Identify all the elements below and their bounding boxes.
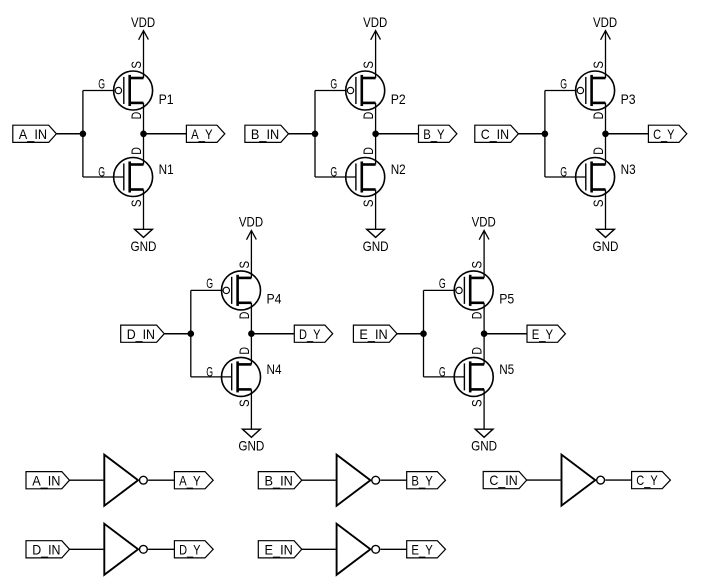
svg-text:N4: N4 [267, 361, 282, 377]
pin label S of N4 [236, 399, 252, 407]
svg-text:S: S [590, 61, 606, 69]
svg-text:C_Y: C_Y [653, 126, 675, 142]
global label C_Y (gate row) [632, 472, 671, 489]
wire input B_IN to gate bus [289, 133, 316, 135]
svg-text:GND: GND [238, 438, 264, 454]
svg-text:P2: P2 [391, 91, 406, 107]
inverter gate C (triangle) [562, 455, 596, 506]
wire VDD to P3 source [605, 31, 607, 78]
global label C_IN [475, 125, 519, 142]
svg-text:G: G [439, 275, 446, 291]
global label A_Y (gate row) [174, 472, 213, 489]
svg-text:E_Y: E_Y [411, 541, 433, 557]
svg-text:S: S [469, 399, 485, 407]
svg-text:G: G [330, 75, 337, 91]
wire VDD to P1 source [143, 31, 145, 78]
global label E_IN (gate row) [258, 541, 302, 558]
svg-text:G: G [206, 275, 213, 291]
svg-text:E_IN: E_IN [265, 541, 293, 557]
svg-text:S: S [236, 399, 252, 407]
pin label S of N5 [469, 399, 485, 407]
ground GND (inverter B) [363, 229, 389, 254]
svg-text:A_Y: A_Y [179, 472, 201, 488]
global label D_IN [121, 325, 165, 342]
wire inverter output to B_Y [380, 479, 406, 481]
svg-text:P4: P4 [267, 291, 282, 307]
svg-text:S: S [360, 61, 376, 69]
power VDD (inverter D) [239, 214, 263, 240]
svg-text:D_IN: D_IN [127, 326, 155, 342]
inverter gate E output bubble [372, 545, 380, 553]
ground GND (inverter C) [593, 229, 619, 254]
global label A_Y [186, 125, 224, 142]
svg-text:D: D [128, 147, 144, 155]
global label C_IN (gate row) [483, 472, 527, 489]
svg-text:P5: P5 [499, 291, 514, 307]
svg-text:GND: GND [131, 238, 157, 254]
nmos transistor N3 [576, 158, 615, 197]
svg-text:E_IN: E_IN [359, 326, 387, 342]
wire gate bus to N3 gate [545, 176, 586, 178]
svg-text:D: D [590, 112, 606, 120]
pin label D of P1 [128, 112, 144, 120]
inverter gate A output bubble [140, 476, 148, 484]
svg-text:D: D [128, 112, 144, 120]
pin label S of P5 [469, 261, 485, 269]
svg-text:GND: GND [363, 238, 389, 254]
wire gate bus to P2 gate [315, 90, 347, 92]
pin label S of P2 [360, 61, 376, 69]
svg-text:VDD: VDD [131, 14, 155, 30]
svg-text:S: S [590, 200, 606, 208]
wire inverter output to D_Y [148, 548, 174, 550]
wire D_IN to inverter input [70, 548, 104, 550]
inverter gate C output bubble [597, 476, 605, 484]
svg-text:S: S [469, 261, 485, 269]
inverter gate E (triangle) [337, 524, 371, 575]
junction on output (net C_Y) [602, 131, 609, 138]
svg-text:A_IN: A_IN [32, 472, 60, 488]
svg-text:B_IN: B_IN [251, 126, 279, 142]
wire gate bus (inverter E) [423, 290, 425, 377]
svg-text:P1: P1 [159, 91, 174, 107]
wire gate bus to N4 gate [191, 376, 232, 378]
svg-text:N3: N3 [621, 161, 636, 177]
junction on output (net A_Y) [140, 131, 147, 138]
inverter gate B output bubble [372, 476, 380, 484]
svg-text:P3: P3 [621, 91, 636, 107]
junction on output (net B_Y) [372, 131, 379, 138]
ground GND (inverter A) [131, 229, 157, 254]
wire A_IN to inverter input [70, 479, 104, 481]
global label B_Y [419, 125, 457, 142]
svg-text:C_IN: C_IN [489, 472, 517, 488]
wire P4 drain to N4 drain (output) [250, 303, 252, 365]
svg-text:E_Y: E_Y [532, 326, 554, 342]
pmos transistor P5 [454, 271, 493, 310]
wire E_IN to inverter input [302, 548, 336, 550]
wire gate bus (inverter B) [314, 91, 316, 178]
svg-text:B_Y: B_Y [423, 126, 445, 142]
svg-text:D: D [590, 147, 606, 155]
wire output to C_Y label [606, 133, 649, 135]
global label B_IN (gate row) [258, 472, 302, 489]
svg-text:S: S [360, 200, 376, 208]
pin label S of N3 [590, 200, 606, 208]
wire gate bus to N5 gate [424, 376, 465, 378]
pin label S of N2 [360, 200, 376, 208]
nmos transistor N1 [114, 158, 153, 197]
inverter gate A (triangle) [104, 455, 138, 506]
svg-text:GND: GND [471, 438, 497, 454]
svg-text:A_IN: A_IN [19, 126, 47, 142]
global label E_Y [527, 325, 565, 342]
svg-text:S: S [128, 61, 144, 69]
wire gate bus (inverter D) [190, 290, 192, 377]
pin label D of N3 [590, 147, 606, 155]
svg-text:D_Y: D_Y [299, 326, 321, 342]
power VDD (inverter C) [593, 14, 617, 40]
pin label D of N2 [360, 147, 376, 155]
wire P2 drain to N2 drain (output) [375, 103, 377, 165]
wire P1 drain to N1 drain (output) [143, 103, 145, 165]
wire output to D_Y label [251, 333, 294, 335]
wire N1 source to GND [143, 190, 145, 230]
wire N4 source to GND [250, 389, 252, 429]
svg-text:VDD: VDD [363, 14, 387, 30]
power VDD (inverter A) [131, 14, 155, 40]
inverter gate D (triangle) [104, 524, 138, 575]
pmos transistor P3 [576, 71, 615, 110]
wire N2 source to GND [375, 190, 377, 230]
svg-text:B_Y: B_Y [411, 472, 433, 488]
junction on gate bus (net A_IN) [80, 131, 87, 138]
wire VDD to P5 source [483, 231, 485, 278]
svg-text:D: D [360, 112, 376, 120]
svg-text:N5: N5 [499, 361, 514, 377]
wire output to E_Y label [484, 333, 527, 335]
global label D_IN (gate row) [26, 541, 70, 558]
wire input D_IN to gate bus [164, 333, 191, 335]
svg-text:B_IN: B_IN [265, 472, 293, 488]
pin label D of N5 [469, 347, 485, 355]
junction on gate bus (net B_IN) [312, 131, 319, 138]
svg-text:C_Y: C_Y [636, 472, 658, 488]
pin label D of P5 [469, 312, 485, 320]
wire input E_IN to gate bus [397, 333, 424, 335]
global label A_IN [13, 125, 57, 142]
wire output to B_Y label [376, 133, 419, 135]
global label E_Y (gate row) [407, 541, 446, 558]
wire C_IN to inverter input [527, 479, 561, 481]
pin label S of P1 [128, 61, 144, 69]
wire gate bus (inverter C) [544, 91, 546, 178]
wire VDD to P4 source [250, 231, 252, 278]
svg-text:S: S [128, 200, 144, 208]
global label A_IN (gate row) [26, 472, 70, 489]
inverter gate B (triangle) [337, 455, 371, 506]
svg-text:A_Y: A_Y [191, 126, 213, 142]
svg-text:D_IN: D_IN [32, 541, 60, 557]
junction on gate bus (net C_IN) [542, 131, 549, 138]
svg-text:N1: N1 [159, 161, 174, 177]
svg-text:D_Y: D_Y [179, 541, 201, 557]
junction on output (net E_Y) [481, 330, 488, 337]
wire inverter output to A_Y [148, 479, 174, 481]
wire gate bus (inverter A) [82, 91, 84, 178]
pin label S of P4 [236, 261, 252, 269]
wire B_IN to inverter input [302, 479, 336, 481]
svg-text:G: G [98, 75, 105, 91]
svg-text:D: D [469, 312, 485, 320]
wire gate bus to P1 gate [83, 90, 115, 92]
svg-text:G: G [560, 75, 567, 91]
wire input A_IN to gate bus [56, 133, 83, 135]
wire inverter output to C_Y [605, 479, 631, 481]
global label D_Y [294, 325, 332, 342]
wire VDD to P2 source [375, 31, 377, 78]
pin label D of P4 [236, 312, 252, 320]
pin label D of P2 [360, 112, 376, 120]
pmos transistor P1 [114, 71, 153, 110]
wire input C_IN to gate bus [518, 133, 545, 135]
svg-text:S: S [236, 261, 252, 269]
svg-text:VDD: VDD [593, 14, 617, 30]
ground GND (inverter D) [238, 429, 264, 454]
svg-text:VDD: VDD [472, 214, 496, 230]
global label E_IN [353, 325, 397, 342]
power VDD (inverter E) [472, 214, 496, 240]
pin label S of P3 [590, 61, 606, 69]
svg-text:D: D [236, 312, 252, 320]
wire gate bus to P3 gate [545, 90, 577, 92]
nmos transistor N5 [454, 357, 493, 396]
pin label S of N1 [128, 200, 144, 208]
nmos transistor N4 [222, 357, 261, 396]
wire N5 source to GND [483, 389, 485, 429]
svg-text:GND: GND [593, 238, 619, 254]
global label B_IN [245, 125, 289, 142]
global label D_Y (gate row) [174, 541, 213, 558]
pmos transistor P4 [222, 271, 261, 310]
inverter gate D output bubble [140, 545, 148, 553]
pin label D of N4 [236, 347, 252, 355]
nmos transistor N2 [346, 158, 385, 197]
pin label D of N1 [128, 147, 144, 155]
pmos transistor P2 [346, 71, 385, 110]
pin label D of P3 [590, 112, 606, 120]
wire P5 drain to N5 drain (output) [483, 303, 485, 365]
wire output to A_Y label [144, 133, 187, 135]
wire P3 drain to N3 drain (output) [605, 103, 607, 165]
svg-text:D: D [469, 347, 485, 355]
wire gate bus to N1 gate [83, 176, 124, 178]
junction on gate bus (net E_IN) [420, 330, 427, 337]
power VDD (inverter B) [363, 14, 387, 40]
junction on output (net D_Y) [248, 330, 255, 337]
wire gate bus to N2 gate [315, 176, 356, 178]
wire gate bus to P4 gate [191, 289, 223, 291]
wire gate bus to P5 gate [424, 289, 456, 291]
svg-text:D: D [236, 347, 252, 355]
svg-text:D: D [360, 147, 376, 155]
global label B_Y (gate row) [407, 472, 446, 489]
wire N3 source to GND [605, 190, 607, 230]
svg-text:N2: N2 [391, 161, 406, 177]
global label C_Y [648, 125, 686, 142]
wire inverter output to E_Y [380, 548, 406, 550]
svg-text:VDD: VDD [239, 214, 263, 230]
ground GND (inverter E) [471, 429, 497, 454]
svg-text:C_IN: C_IN [481, 126, 509, 142]
junction on gate bus (net D_IN) [188, 330, 195, 337]
